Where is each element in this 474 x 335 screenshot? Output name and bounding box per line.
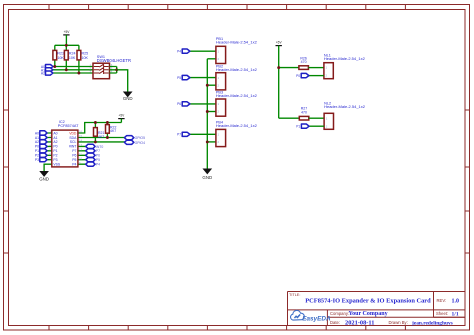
svg-text:Company:: Company: [330,311,349,316]
net flag A0 [41,65,53,70]
wire: switch right bus [110,67,117,74]
EasyEDA logo [291,310,331,322]
net flag P7 [86,149,100,154]
+5V flag (right) [276,41,283,46]
svg-text:DSWB04LHGETR: DSWB04LHGETR [97,58,131,63]
svg-text:Your Company: Your Company [349,311,388,317]
ground (IC) [39,171,49,181]
svg-text:P4: P4 [72,163,76,167]
svg-text:1.0: 1.0 [452,298,460,304]
net flag P0 (NL1) [296,73,324,78]
header PB3 [190,90,257,116]
svg-text:Header-Male-2.54_1x2: Header-Male-2.54_1x2 [216,93,258,98]
svg-text:P3: P3 [53,158,57,162]
svg-text:A1: A1 [53,136,57,140]
svg-text:P1: P1 [53,149,57,153]
net flag P6 (PB3) [177,102,190,106]
svg-text:4K7: 4K7 [110,129,116,133]
header PB2 [190,64,257,90]
svg-text:Header-Male-2.54_1x2: Header-Male-2.54_1x2 [216,123,258,128]
IC IC2 PCF8574AT [49,120,82,167]
svg-text:10K: 10K [57,56,64,60]
svg-text:P5: P5 [72,158,76,162]
svg-text:#INT: #INT [69,145,76,149]
svg-text:Sheet:: Sheet: [436,311,448,316]
net flag A0 (IC) [35,131,47,136]
svg-text:P4: P4 [96,163,100,167]
svg-text:VDD: VDD [69,131,77,135]
svg-text:P1: P1 [296,125,300,129]
wire to GND [117,70,128,92]
junction dots on resistor rows [53,44,80,75]
wire: SCL row [78,141,125,143]
svg-text:jean.redelinghuys: jean.redelinghuys [411,320,453,326]
svg-text:P7: P7 [96,149,100,153]
svg-text:+5V: +5V [64,30,71,34]
wire: VDD to +5V [78,123,122,134]
resistor R27 [279,107,324,120]
net flag P1 (IC) [35,149,47,153]
svg-text:P7: P7 [177,133,181,137]
net flag P1 (NL2) [296,124,324,129]
svg-text:A0: A0 [53,131,57,135]
net flag A2 (IC) [35,140,47,144]
net flag P5 (PB2) [177,75,190,80]
svg-text:11: 11 [79,152,82,156]
svg-text:10K: 10K [69,56,76,60]
net flag P0 (IC) [35,144,47,149]
svg-text:GND: GND [123,96,133,101]
svg-text:+5V: +5V [119,114,126,118]
header NL2 [324,101,366,129]
svg-text:SCL: SCL [70,140,77,144]
resistor R21 [94,123,105,142]
svg-text:VSS: VSS [53,163,61,167]
svg-text:14: 14 [79,139,83,143]
wire: VSS to ground [44,164,52,171]
svg-text:GPIO4: GPIO4 [135,141,145,145]
svg-text:A2: A2 [41,72,45,76]
DIP switch SW1 [89,55,131,79]
net flag A1 [41,68,53,73]
svg-text:13: 13 [79,143,83,147]
title block [288,292,466,326]
header NL1 [324,53,366,78]
wire: +5V rail [55,44,79,46]
resistor R26 [277,56,324,69]
svg-text:10: 10 [79,156,83,160]
wire: PB bus [206,59,208,169]
svg-text:P0: P0 [296,74,300,78]
header PB4 [190,121,257,147]
net flag P2 (IC) [35,153,47,158]
svg-text:A1: A1 [35,136,39,140]
junction on bus [115,68,118,71]
net flag GPIO4 [124,140,145,145]
svg-text:TITLE:: TITLE: [289,293,300,297]
svg-text:P0: P0 [53,145,57,149]
wire: SDA row [78,137,125,139]
svg-text:A2: A2 [35,140,39,144]
wire: A0 row [53,66,94,68]
resistor R25 [77,45,88,73]
svg-text:Header-Male-2.54_1x2: Header-Male-2.54_1x2 [216,67,258,72]
junction dots pullups [94,121,109,143]
ground (middle) [202,169,212,180]
IC left stub wires [47,133,52,160]
resistor R22 [106,123,117,138]
svg-text:4K7: 4K7 [98,135,104,139]
ground (switch) [123,92,133,101]
svg-text:15: 15 [79,134,83,138]
svg-text:P3: P3 [35,158,39,162]
svg-text:Drawn By:: Drawn By: [389,320,408,325]
net flag A1 (IC) [35,135,47,140]
svg-text:Header-Male-2.54_1x2: Header-Male-2.54_1x2 [324,104,366,109]
net flag GPIO5 [124,136,145,141]
net flag P6 [86,153,100,158]
svg-text:1/1: 1/1 [452,311,459,317]
svg-text:Date:: Date: [330,320,340,325]
svg-text:P0: P0 [35,145,39,149]
svg-text:GND: GND [39,177,49,182]
svg-text:P6: P6 [177,102,181,106]
svg-text:A2: A2 [53,140,57,144]
svg-text:P1: P1 [35,149,39,153]
net flag P4 [86,162,100,167]
svg-text:P2: P2 [35,154,39,158]
svg-text:Header-Male-2.54_1x2: Header-Male-2.54_1x2 [324,56,366,61]
svg-text:P6: P6 [72,154,76,158]
net flag P7 (PB4) [177,132,190,136]
svg-text:EasyEDA: EasyEDA [302,316,331,323]
net flag A2 [41,71,53,76]
svg-text:REV:: REV: [437,298,447,303]
+5V flag (IC) [118,114,125,123]
resistor R23 [53,45,64,66]
svg-text:470: 470 [301,110,307,114]
net flag P4 (PB1) [177,49,190,54]
wire: IC right stubs [78,146,86,164]
svg-text:A0: A0 [35,131,39,135]
svg-text:GPIO5: GPIO5 [135,136,145,140]
svg-text:Header-Male-2.54_1x2: Header-Male-2.54_1x2 [216,40,258,45]
svg-text:12: 12 [79,147,83,151]
svg-text:P5: P5 [177,76,181,80]
net flag INT0 [86,144,104,149]
svg-text:10K: 10K [82,56,89,60]
svg-text:SDA: SDA [69,136,77,140]
svg-text:P6: P6 [96,154,100,158]
header PB1 [190,37,257,63]
svg-text:P4: P4 [177,50,181,54]
svg-text:GND: GND [202,175,212,180]
svg-text:INT0: INT0 [96,145,103,149]
svg-text:16: 16 [79,130,83,134]
+5V flag (top-left) [63,30,70,45]
svg-text:+5V: +5V [276,41,283,45]
svg-text:2021-08-11: 2021-08-11 [345,319,374,326]
svg-text:P2: P2 [53,154,57,158]
svg-text:PCF8574AT: PCF8574AT [58,124,79,128]
wire: A2 row [53,72,94,74]
resistor R24 [64,45,75,70]
svg-text:P5: P5 [96,158,100,162]
svg-text:PCF8574-IO Expander & IO Expan: PCF8574-IO Expander & IO Expansion Card [305,298,431,305]
wire: A1 row [53,69,94,71]
svg-text:P7: P7 [72,149,76,153]
net flag P3 (IC) [35,158,47,162]
net flag P5 [86,158,100,163]
wire: +5V rail [278,46,280,119]
svg-text:470: 470 [301,60,307,64]
